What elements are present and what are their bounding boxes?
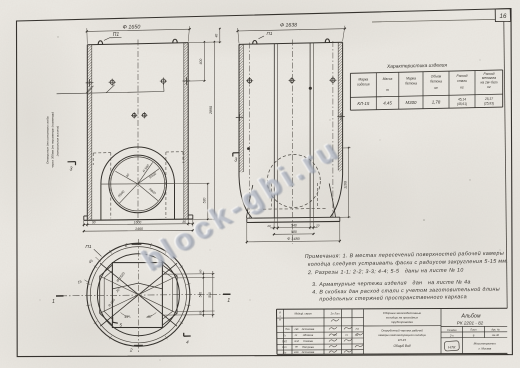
- middle view right wall: [342, 42, 344, 174]
- left view base ledge right: [192, 215, 194, 219]
- svg-text:Марка: Марка: [358, 78, 368, 82]
- radial line R500 down-left: [119, 184, 137, 203]
- svg-text:Отверстия для установки скобы: Отверстия для установки скобы: [46, 115, 50, 164]
- svg-text:г. Москва: г. Москва: [478, 347, 491, 351]
- svg-text:1600: 1600: [134, 221, 142, 225]
- svg-text:1: 1: [227, 298, 230, 304]
- svg-text:кг: кг: [460, 86, 464, 90]
- svg-text:4: 4: [186, 339, 189, 345]
- plan ledge right inner: [162, 271, 172, 320]
- middle view flare outer right: [330, 175, 342, 218]
- arch springline: [101, 183, 175, 186]
- svg-text:580: 580: [291, 230, 297, 234]
- hidden corbel dashes right: [165, 152, 167, 218]
- section line 1-1: [60, 294, 227, 296]
- svg-text:Ф 1480: Ф 1480: [287, 237, 300, 241]
- section mark 2 bottom: [134, 344, 143, 346]
- anchor tick right wall: [183, 80, 191, 82]
- svg-text:через 300мм (по периметру диам: через 300мм (по периметру диаметру): [51, 112, 55, 168]
- lifting loop right: [173, 39, 177, 43]
- svg-text:600: 600: [199, 59, 203, 65]
- inner frame top edge (warped scan line): [372, 19, 495, 22]
- svg-text:1460: 1460: [135, 227, 143, 231]
- left view base ledge left: [83, 216, 85, 220]
- middle view hatch right: [339, 42, 343, 171]
- middle lifting loop left: [253, 41, 257, 45]
- svg-text:РК 2201 - 82: РК 2201 - 82: [457, 320, 484, 325]
- svg-text:т: т: [386, 88, 389, 92]
- svg-text:Мосинжпроект: Мосинжпроект: [474, 342, 497, 346]
- svg-text:камеры комплектующего колодц: камеры комплектующего колодца: [378, 333, 426, 337]
- middle view base top line: [247, 217, 340, 218]
- dimension 600: [203, 42, 205, 81]
- dimension 1460: [84, 229, 193, 232]
- middle view flare inner right: [329, 184, 335, 218]
- dimension 20-540-20: [270, 226, 317, 229]
- svg-text:25,37: 25,37: [484, 97, 493, 101]
- plan ledge left outer: [100, 265, 113, 325]
- svg-text:4,45: 4,45: [383, 101, 392, 106]
- svg-text:НТК: НТК: [448, 345, 456, 349]
- svg-text:Лист: Лист: [469, 329, 476, 332]
- svg-text:изделия: изделия: [357, 83, 370, 87]
- middle view right inner line: [337, 42, 339, 170]
- left view right wall inner line: [183, 43, 185, 220]
- svg-text:Астахова: Астахова: [301, 350, 315, 354]
- svg-text:ГИП: ГИП: [282, 340, 287, 343]
- radial line up-left + 40: [115, 171, 137, 184]
- middle view axis right: [332, 41, 334, 217]
- radial line R600 right: [138, 169, 160, 184]
- svg-text:Расход: Расход: [457, 74, 468, 78]
- svg-text:Ф 1650: Ф 1650: [123, 24, 141, 30]
- paper mottling blobs: [320, 120, 520, 360]
- plan diagonal NE-SW: [100, 263, 177, 326]
- svg-text:Сомова: Сомова: [303, 339, 313, 343]
- svg-text:2-х: 2-х: [449, 334, 454, 338]
- arch outer arc: [101, 147, 175, 184]
- svg-text:Марка: Марка: [406, 77, 416, 81]
- middle view left wall: [238, 44, 240, 176]
- section mark 4: [184, 335, 191, 337]
- dimension 590 plan: [212, 271, 214, 318]
- plan ridge bent line: [112, 283, 162, 289]
- dimension 580: [274, 233, 314, 235]
- sheet number box: [495, 9, 510, 22]
- svg-text:45,14: 45,14: [458, 98, 466, 102]
- middle anchors: [248, 79, 252, 83]
- section mark 3 left view: [68, 161, 76, 163]
- anchor tick left wall: [86, 82, 94, 84]
- shaft edge line left pair: [273, 44, 275, 218]
- svg-text:стали: стали: [457, 79, 467, 83]
- dimension row 80-1600-80: [84, 224, 193, 225]
- lifting loop left (П1): [98, 41, 102, 45]
- svg-text:Опалубочный чертеж рабочей: Опалубочный чертеж рабочей: [381, 329, 423, 333]
- svg-text:металла: металла: [482, 76, 496, 80]
- svg-text:Общий Вид: Общий Вид: [393, 344, 410, 348]
- svg-text:отд: отд: [294, 340, 299, 343]
- opening inner circle: [109, 155, 167, 213]
- plan opening square: [112, 263, 162, 328]
- svg-text:1,78: 1,78: [432, 100, 441, 105]
- svg-text:Объем: Объем: [431, 75, 442, 79]
- dimension 530: [207, 184, 209, 220]
- left view wall hatch right: [184, 43, 188, 219]
- svg-text:5: 5: [120, 323, 123, 328]
- middle view centre axis: [291, 40, 293, 244]
- svg-text:(25,83): (25,83): [484, 102, 494, 106]
- svg-text:60: 60: [198, 311, 202, 315]
- middle view base right side: [339, 217, 341, 221]
- svg-text:Ан-42: Ан-42: [491, 333, 499, 337]
- svg-text:на 1м³ бет: на 1м³ бет: [480, 81, 497, 85]
- radial line R500 up-right: [138, 162, 153, 184]
- middle view flare inner left: [246, 185, 252, 218]
- hidden opening circle (dashed): [267, 155, 320, 208]
- arch left jamb: [100, 184, 102, 220]
- svg-text:60: 60: [198, 269, 202, 273]
- svg-text:(45,61): (45,61): [457, 102, 467, 106]
- hidden jamb right (dashed): [316, 183, 318, 209]
- dimension Ф 1480: [247, 241, 340, 242]
- svg-text:Астахова: Астахова: [301, 327, 315, 331]
- svg-text:Лum: Лum: [334, 312, 340, 315]
- svg-text:Модиф. серия: Модиф. серия: [294, 312, 312, 316]
- title block grid: [277, 308, 508, 309]
- middle view top edge: [239, 42, 343, 44]
- shaft edge line right pair: [309, 43, 311, 217]
- opening inner circle 2: [111, 157, 165, 211]
- svg-text:кжт: кжт: [294, 351, 299, 354]
- dimension 60-540-60 plan: [202, 272, 204, 318]
- svg-text:Ф 1638: Ф 1638: [280, 22, 297, 28]
- svg-text:П1: П1: [113, 32, 120, 38]
- svg-text:20: 20: [266, 224, 271, 228]
- svg-text:1: 1: [52, 299, 55, 305]
- left view wall hatch left: [88, 45, 92, 220]
- svg-text:2890: 2890: [209, 106, 213, 115]
- left view top edge: [87, 43, 188, 45]
- svg-text:20: 20: [315, 223, 320, 227]
- radial line R600 down-right: [138, 184, 158, 201]
- svg-text:16: 16: [500, 13, 507, 20]
- svg-text:КЛ-15: КЛ-15: [357, 101, 370, 106]
- watermark block-gbi.ru: [134, 129, 348, 280]
- svg-text:2п: 2п: [330, 311, 334, 315]
- svg-text:Петрова: Петрова: [302, 345, 314, 349]
- svg-text:590: 590: [208, 292, 212, 298]
- svg-text:Масса: Масса: [383, 77, 393, 81]
- left view centre axis: [137, 40, 139, 224]
- svg-text:КЛ-15: КЛ-15: [398, 338, 406, 342]
- anchor holes row: [110, 80, 114, 84]
- dimension Ф 1638 top: [238, 29, 345, 31]
- svg-text:Арх. №: Арх. №: [490, 329, 500, 332]
- paper specks: [423, 219, 425, 221]
- middle view left inner line: [242, 44, 244, 172]
- anchor holes centre pair: [132, 113, 136, 117]
- svg-text:з: з: [278, 316, 280, 318]
- svg-text:90: 90: [92, 221, 96, 225]
- svg-text:2: 2: [129, 348, 133, 354]
- svg-text:П1: П1: [85, 244, 91, 250]
- middle lifting loop right: [325, 39, 329, 43]
- hidden base edge (dashed): [258, 208, 328, 211]
- plan outer ring 2: [90, 247, 186, 343]
- svg-text:трубопроводах: трубопроводах: [391, 320, 413, 324]
- svg-text:540: 540: [291, 224, 297, 228]
- svg-text:540: 540: [198, 292, 202, 298]
- inner frame right edge: [504, 21, 507, 308]
- middle view base bottom: [247, 221, 340, 222]
- svg-text:3: 3: [70, 167, 73, 173]
- middle view hatch left: [239, 44, 243, 172]
- characteristics table grid: [350, 70, 502, 73]
- plan fold to ledge corners: [100, 276, 139, 295]
- plan diagonal NW-SE: [100, 263, 177, 326]
- dimension 2890: [213, 42, 215, 220]
- plan vertical axis: [137, 239, 139, 353]
- hole leader lines: [86, 86, 94, 94]
- svg-text:Альбом: Альбом: [460, 314, 481, 320]
- left view left wall: [86, 45, 88, 220]
- svg-text:1160: 1160: [343, 181, 347, 189]
- section mark 2 top: [132, 243, 142, 245]
- svg-text:колодцы на проходных: колодцы на проходных: [386, 316, 419, 320]
- section mark 5: [113, 317, 118, 324]
- left view base bottom: [84, 219, 193, 220]
- arch right jamb: [174, 184, 176, 220]
- svg-text:П1: П1: [267, 31, 273, 36]
- dimension 1160: [348, 148, 350, 218]
- svg-text:3: 3: [234, 158, 237, 164]
- middle view axis left: [249, 43, 251, 219]
- svg-text:2: 2: [124, 243, 128, 249]
- section mark 3 middle view: [233, 152, 240, 154]
- svg-text:Исп: Исп: [282, 346, 287, 349]
- middle wall tick right: [337, 116, 344, 118]
- plan ring radial ticks: [186, 304, 190, 307]
- svg-text:кг: кг: [487, 85, 491, 89]
- svg-text:40: 40: [214, 34, 218, 38]
- svg-text:530: 530: [203, 198, 207, 204]
- plan inner circle: [97, 254, 179, 336]
- svg-text:Стадия: Стадия: [447, 329, 457, 332]
- hidden jamb left (dashed): [270, 184, 272, 209]
- svg-text:(натуральная высота): (натуральная высота): [56, 126, 60, 157]
- left view right wall: [187, 43, 189, 220]
- dimension Ф 1650: [87, 29, 190, 31]
- middle wall tick left: [236, 116, 243, 118]
- notes paragraph: [305, 250, 509, 303]
- plan ledge right outer: [162, 265, 177, 325]
- svg-text:бетона: бетона: [430, 80, 442, 84]
- hidden corbel dashes left: [110, 153, 112, 219]
- plan outer circle: [87, 243, 190, 346]
- plan ledge left inner: [104, 271, 112, 320]
- rivet dot right shaft: [309, 87, 312, 90]
- plan ext lines right: [162, 273, 214, 276]
- dimension 40 top: [219, 29, 221, 43]
- svg-text:М300: М300: [406, 100, 418, 105]
- svg-text:Аблязов: Аблязов: [302, 333, 314, 337]
- middle view flare outer left: [239, 176, 252, 218]
- svg-text:Сборные железобетонные: Сборные железобетонные: [383, 311, 422, 315]
- left view left wall inner line: [91, 45, 93, 220]
- rivet dot left flare: [247, 147, 250, 150]
- svg-text:бетона: бетона: [405, 82, 417, 86]
- middle view base left side: [246, 218, 248, 222]
